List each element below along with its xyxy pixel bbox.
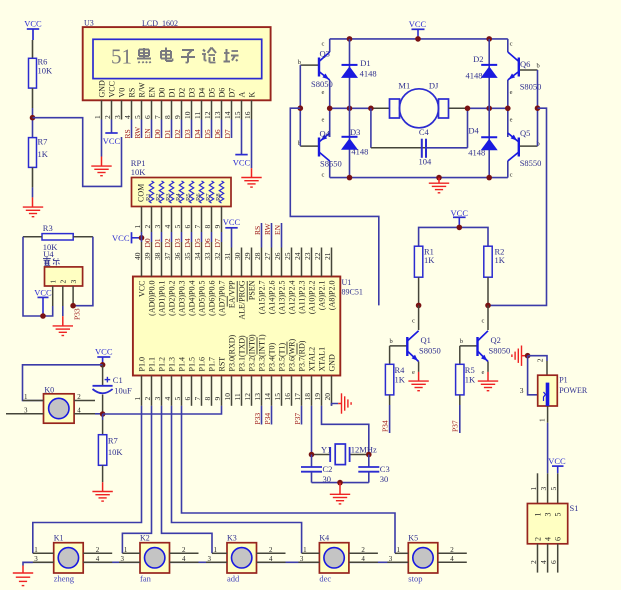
- svg-text:3: 3: [389, 555, 393, 563]
- svg-text:15: 15: [233, 111, 242, 119]
- power VCC (U4 pin1): [34, 287, 52, 316]
- node motor rail Q3/Q4 emitters: [327, 106, 333, 112]
- svg-text:7: 7: [193, 397, 202, 401]
- wire RST net: [103, 406, 222, 414]
- node U4 pin1 VCC junction: [40, 313, 46, 319]
- svg-text:(A15)P2.7: (A15)P2.7: [258, 281, 267, 315]
- svg-text:1: 1: [538, 418, 547, 422]
- svg-text:34: 34: [193, 252, 202, 260]
- svg-text:(AD1)P0.1: (AD1)P0.1: [158, 281, 167, 316]
- wire driver VCC rail: [419, 227, 488, 246]
- svg-text:1: 1: [24, 393, 28, 401]
- node top rail D2: [486, 36, 492, 42]
- svg-text:D7: D7: [228, 88, 237, 98]
- svg-text:D0: D0: [158, 88, 167, 98]
- svg-text:36: 36: [173, 252, 182, 260]
- wire H-bridge motor rail left: [330, 39, 390, 137]
- wire XTAL2 to crystal left node: [311, 406, 313, 455]
- svg-text:c: c: [482, 318, 485, 325]
- svg-text:3: 3: [539, 487, 548, 491]
- svg-text:VCC: VCC: [108, 81, 117, 97]
- svg-text:R4: R4: [175, 193, 182, 201]
- svg-text:RS: RS: [123, 129, 132, 138]
- node motor rail D1/D3: [347, 106, 353, 112]
- svg-text:R/W: R/W: [138, 82, 147, 98]
- pushbutton K0: [6, 386, 95, 424]
- svg-text:13: 13: [213, 111, 222, 119]
- svg-text:4: 4: [269, 555, 273, 563]
- ground (U4 pin2): [53, 316, 73, 335]
- svg-text:EN: EN: [148, 87, 157, 98]
- svg-text:R5: R5: [465, 365, 475, 375]
- motor M1 DJ: [390, 81, 449, 128]
- capacitor C3 30pF: [358, 455, 389, 485]
- svg-text:1K: 1K: [424, 255, 435, 265]
- svg-text:c: c: [322, 41, 325, 48]
- svg-text:20: 20: [323, 393, 332, 401]
- svg-text:51: 51: [111, 45, 132, 69]
- svg-text:8: 8: [163, 115, 172, 119]
- wire left base drive to Q1 collector: [290, 108, 379, 305]
- svg-text:7: 7: [153, 115, 162, 119]
- svg-text:P1.6: P1.6: [198, 357, 207, 371]
- svg-text:D6: D6: [213, 129, 222, 138]
- svg-text:D3: D3: [183, 129, 192, 138]
- svg-text:R2: R2: [155, 193, 162, 201]
- svg-text:2: 2: [536, 358, 545, 362]
- node motor rail C4 left: [368, 106, 374, 112]
- svg-text:10uF: 10uF: [114, 386, 132, 396]
- svg-text:3: 3: [69, 280, 78, 284]
- svg-text:30: 30: [380, 474, 389, 484]
- svg-text:VCC: VCC: [223, 217, 241, 227]
- svg-text:D3: D3: [173, 238, 182, 247]
- transistor Q1 S8050: [390, 305, 441, 376]
- resistor R4 1K: [385, 346, 405, 405]
- svg-text:3: 3: [121, 555, 125, 563]
- svg-text:4: 4: [77, 406, 81, 414]
- svg-text:19: 19: [313, 393, 322, 401]
- svg-text:1: 1: [529, 487, 538, 491]
- svg-text:3: 3: [208, 555, 212, 563]
- svg-text:D4: D4: [198, 88, 207, 98]
- svg-text:(A10)P2.2: (A10)P2.2: [308, 281, 317, 315]
- svg-text:2: 2: [103, 115, 112, 119]
- pushbutton K1 (zheng): [33, 534, 113, 584]
- capacitor C1 10uF electrolytic: [93, 365, 132, 414]
- svg-text:4: 4: [450, 555, 454, 563]
- resistor R5 1K: [456, 346, 476, 405]
- svg-text:e: e: [322, 89, 325, 96]
- node top rail D1: [347, 36, 353, 42]
- svg-text:14: 14: [263, 393, 272, 401]
- ground (MCU pin20, sideways): [338, 393, 351, 413]
- svg-text:A: A: [238, 92, 247, 98]
- svg-text:21: 21: [323, 252, 332, 260]
- svg-text:40: 40: [133, 252, 142, 260]
- svg-text:LCD_1602: LCD_1602: [142, 19, 178, 28]
- svg-text:R3: R3: [165, 193, 172, 201]
- pushbutton K3 (add): [206, 534, 286, 584]
- svg-text:S8550: S8550: [320, 159, 342, 169]
- node Q1 collector: [416, 303, 422, 309]
- transistor Q4 S8550: [298, 117, 342, 179]
- MCU pin name overlines (INT0 INT1 WR RD): [247, 337, 297, 354]
- svg-text:5: 5: [173, 397, 182, 401]
- svg-text:R7: R7: [38, 137, 48, 147]
- node crystal left: [309, 452, 315, 458]
- ground (Q2 emitter): [478, 372, 498, 391]
- svg-text:2: 2: [182, 546, 186, 554]
- svg-text:3: 3: [153, 397, 162, 401]
- svg-text:VCC: VCC: [409, 19, 427, 29]
- svg-text:M1: M1: [398, 81, 410, 91]
- svg-text:P3.6(WR): P3.6(WR): [288, 339, 297, 372]
- svg-text:10K: 10K: [131, 167, 147, 177]
- svg-text:10: 10: [223, 393, 232, 401]
- transistor Q2 S8050: [460, 305, 510, 376]
- svg-text:D5: D5: [193, 238, 202, 247]
- svg-text:P1.0: P1.0: [138, 357, 147, 371]
- svg-text:c: c: [412, 318, 415, 325]
- svg-text:D5: D5: [203, 129, 212, 138]
- svg-text:K4: K4: [319, 534, 329, 543]
- svg-text:D0: D0: [143, 238, 152, 247]
- svg-text:1: 1: [133, 397, 142, 401]
- node C1/R7/RST junction: [100, 411, 106, 417]
- svg-text:1K: 1K: [495, 255, 506, 265]
- svg-text:2: 2: [77, 393, 81, 401]
- wire MCU GND pin20 to sideways ground: [332, 404, 339, 406]
- crystal Y1 12MHz: [312, 444, 377, 465]
- svg-text:Q2: Q2: [491, 335, 501, 345]
- svg-text:14: 14: [223, 111, 232, 119]
- svg-text:2: 2: [269, 546, 273, 554]
- svg-text:12: 12: [203, 111, 212, 119]
- svg-text:4: 4: [163, 397, 172, 401]
- LCD pin names: [98, 80, 257, 98]
- svg-text:1: 1: [397, 546, 401, 554]
- svg-text:RS: RS: [253, 226, 262, 235]
- svg-text:P3.2(INT0): P3.2(INT0): [248, 334, 257, 371]
- svg-text:P1.1: P1.1: [148, 357, 157, 371]
- svg-text:10: 10: [183, 111, 192, 119]
- svg-text:R6: R6: [195, 193, 202, 201]
- svg-text:b: b: [390, 338, 393, 345]
- svg-text:6: 6: [143, 115, 152, 119]
- svg-text:VCC: VCC: [95, 346, 113, 356]
- node driver VCC: [457, 225, 463, 231]
- wire right base drive to Q2 collector: [488, 108, 547, 305]
- svg-text:P3.3(INT1): P3.3(INT1): [258, 334, 267, 371]
- hall sensor U4: [43, 249, 83, 306]
- svg-text:D2: D2: [173, 129, 182, 138]
- wire LCD pin15 to VCC: [241, 120, 243, 155]
- node RP1 pin1 junction: [139, 235, 145, 241]
- svg-text:Q4: Q4: [320, 129, 331, 139]
- svg-text:XTAL1: XTAL1: [318, 347, 327, 372]
- svg-text:b: b: [537, 63, 540, 70]
- capacitor C2 30pF: [301, 455, 332, 485]
- node Q3/Q4 bases: [298, 105, 304, 111]
- svg-text:VCC: VCC: [451, 208, 469, 218]
- svg-text:RST: RST: [218, 357, 227, 372]
- svg-text:P37: P37: [451, 420, 460, 432]
- svg-text:1: 1: [303, 546, 307, 554]
- svg-text:(A14)P2.6: (A14)P2.6: [268, 281, 277, 315]
- svg-text:GND: GND: [328, 354, 337, 372]
- switch S1: [527, 473, 578, 572]
- MCU pin name overlines (EA PROG PSEN): [227, 281, 247, 307]
- node Q2 collector: [485, 303, 491, 309]
- RP1 internal resistors R1-R8: [145, 181, 224, 203]
- svg-text:P3.4(T0): P3.4(T0): [268, 343, 277, 372]
- svg-text:C4: C4: [419, 127, 430, 137]
- svg-text:30: 30: [233, 252, 242, 260]
- svg-text:POWER: POWER: [559, 386, 588, 395]
- svg-text:Y1: Y1: [321, 444, 331, 454]
- svg-text:VCC: VCC: [24, 18, 42, 28]
- svg-text:dec: dec: [319, 574, 331, 584]
- svg-text:2: 2: [450, 546, 454, 554]
- svg-text:EN: EN: [143, 128, 152, 139]
- svg-text:24: 24: [293, 252, 302, 260]
- svg-text:39: 39: [143, 252, 152, 260]
- RP1 pins 1-9: [133, 207, 222, 233]
- wire Q3/Q4 base link: [299, 65, 301, 146]
- power VCC (top-left): [24, 18, 42, 40]
- svg-text:D1: D1: [360, 58, 370, 68]
- resistor R3: [42, 223, 73, 252]
- power VCC (RP1 COM): [112, 232, 141, 243]
- wire P1 pin2 to ground: [528, 356, 547, 376]
- diode D2 4148: [466, 39, 498, 108]
- node motor rail right C4: [465, 106, 471, 112]
- svg-text:D3: D3: [188, 88, 197, 98]
- svg-text:28: 28: [253, 252, 262, 260]
- svg-text:D2: D2: [163, 238, 172, 247]
- svg-text:16: 16: [243, 111, 252, 119]
- wire crystal caps common rail: [312, 482, 369, 484]
- svg-text:1: 1: [534, 513, 543, 517]
- net stubs P33 P34 P37 (MCU): [253, 406, 302, 425]
- wire MCU to K4 pin1: [172, 406, 302, 554]
- svg-text:e: e: [510, 89, 513, 96]
- wire MCU to K1 pin1: [33, 406, 142, 554]
- svg-text:3: 3: [520, 386, 524, 395]
- svg-text:(AD6)P0.6: (AD6)P0.6: [208, 281, 217, 316]
- wire U4 pin2 to ground: [62, 306, 64, 316]
- ground (LCD pin16 K): [241, 168, 261, 187]
- svg-text:EN: EN: [273, 224, 282, 235]
- svg-text:Q6: Q6: [520, 59, 530, 69]
- wire K1 pin3 to ground: [23, 562, 33, 565]
- svg-text:4148: 4148: [466, 71, 483, 81]
- svg-text:VCC: VCC: [34, 287, 52, 297]
- svg-text:VCC: VCC: [112, 233, 130, 243]
- svg-text:R7: R7: [108, 436, 118, 446]
- svg-text:C2: C2: [323, 464, 333, 474]
- svg-text:R4: R4: [395, 365, 406, 375]
- svg-text:1: 1: [124, 546, 128, 554]
- wire XTAL1 to crystal right node: [322, 406, 369, 455]
- svg-text:D2: D2: [473, 54, 483, 64]
- ground (buttons): [13, 566, 33, 586]
- svg-text:(AD5)P0.5: (AD5)P0.5: [198, 281, 207, 316]
- svg-text:c: c: [510, 41, 513, 48]
- svg-text:U1: U1: [342, 278, 352, 287]
- resistor R2 1K: [484, 246, 506, 305]
- svg-text:33: 33: [203, 252, 212, 260]
- transistor Q5 S8550: [508, 117, 542, 179]
- wire R3 right loop to U4 pin3: [73, 237, 93, 306]
- svg-text:(A8)P2.0: (A8)P2.0: [328, 281, 337, 311]
- pushbutton K5 (stop): [387, 534, 467, 584]
- svg-text:P3.5(T1): P3.5(T1): [278, 343, 287, 372]
- svg-text:S8550: S8550: [520, 158, 542, 168]
- svg-text:(A12)P2.4: (A12)P2.4: [288, 281, 297, 315]
- node Q6/Q5 bases: [535, 105, 541, 111]
- svg-text:R1: R1: [145, 193, 152, 201]
- svg-text:c: c: [322, 172, 325, 179]
- net labels D0-D7 (RP1 to P0): [143, 238, 222, 247]
- svg-text:S8050: S8050: [419, 346, 441, 356]
- svg-text:5: 5: [173, 225, 182, 229]
- svg-text:(AD4)P0.4: (AD4)P0.4: [188, 281, 197, 316]
- svg-text:P1.4: P1.4: [178, 357, 187, 371]
- svg-text:RW: RW: [133, 126, 142, 139]
- svg-text:2: 2: [361, 546, 365, 554]
- MCU bottom pin names: [138, 334, 337, 371]
- svg-text:6: 6: [554, 537, 563, 541]
- svg-text:11: 11: [193, 112, 202, 119]
- svg-text:3: 3: [34, 555, 38, 563]
- svg-text:7: 7: [193, 225, 202, 229]
- svg-text:4: 4: [96, 555, 100, 563]
- svg-text:P34: P34: [381, 420, 390, 432]
- svg-text:(A13)P2.5: (A13)P2.5: [278, 281, 287, 315]
- resistor R7 10K (reset): [98, 414, 123, 482]
- svg-text:P33: P33: [73, 308, 82, 320]
- svg-text:2: 2: [143, 397, 152, 401]
- svg-text:D6: D6: [218, 88, 227, 98]
- svg-text:D4: D4: [193, 129, 202, 138]
- svg-text:DJ: DJ: [429, 81, 439, 91]
- node VCC K0/C1: [100, 362, 106, 368]
- capacitor C4 104 snubber: [371, 108, 468, 166]
- svg-text:32: 32: [213, 252, 222, 260]
- svg-text:4: 4: [361, 555, 365, 563]
- svg-text:P3.7(RD): P3.7(RD): [298, 340, 307, 371]
- svg-text:11: 11: [233, 393, 242, 400]
- svg-text:5: 5: [549, 487, 558, 491]
- svg-text:e: e: [510, 117, 513, 124]
- svg-text:12MHz: 12MHz: [351, 444, 377, 454]
- svg-text:4148: 4148: [351, 146, 368, 156]
- svg-text:D4: D4: [183, 238, 192, 247]
- svg-text:P37: P37: [293, 413, 302, 425]
- svg-text:VCC: VCC: [233, 158, 251, 168]
- power VCC (S1 pin5): [548, 456, 566, 473]
- svg-text:add: add: [227, 574, 240, 584]
- svg-text:P34: P34: [263, 413, 272, 425]
- wire buttons common row (pins 3-4): [23, 561, 438, 563]
- svg-text:R5: R5: [185, 193, 192, 201]
- power VCC (driver stage): [451, 208, 469, 228]
- svg-text:1: 1: [93, 115, 102, 119]
- svg-text:6: 6: [183, 397, 192, 401]
- power VCC (K0/C1 node): [95, 346, 113, 365]
- svg-text:1K: 1K: [465, 375, 476, 385]
- MCU top pins 40-21: [133, 248, 332, 277]
- node U4 pin3 junction: [70, 303, 76, 309]
- svg-text:4148: 4148: [468, 147, 485, 157]
- svg-text:(AD2)P0.2: (AD2)P0.2: [168, 281, 177, 316]
- svg-text:8: 8: [203, 225, 212, 229]
- LCD text CJK chars: [137, 48, 239, 64]
- svg-text:D1: D1: [153, 238, 162, 247]
- svg-text:35: 35: [183, 252, 192, 260]
- svg-text:R7: R7: [205, 193, 212, 201]
- svg-text:15: 15: [273, 393, 282, 401]
- svg-text:5: 5: [554, 513, 563, 517]
- LCD module U3 LCD_1602: [83, 19, 271, 101]
- power VCC (LCD pin15 backlight A): [233, 155, 251, 168]
- svg-text:9: 9: [213, 397, 222, 401]
- wire V0 net to LCD pin3: [33, 118, 122, 187]
- svg-text:10K: 10K: [38, 66, 54, 76]
- svg-text:9: 9: [173, 115, 182, 119]
- svg-text:c: c: [510, 172, 513, 179]
- svg-text:D2: D2: [178, 88, 187, 98]
- wire MCU to K3 pin1: [162, 406, 213, 554]
- svg-text:1: 1: [34, 546, 38, 554]
- svg-text:6: 6: [549, 560, 558, 564]
- svg-text:2: 2: [534, 537, 543, 541]
- svg-text:K3: K3: [227, 534, 237, 543]
- svg-text:D7: D7: [213, 238, 222, 247]
- svg-text:P33: P33: [253, 413, 262, 425]
- node crystal ground junction: [337, 480, 343, 486]
- node V0 junction: [30, 115, 36, 121]
- svg-text:2: 2: [143, 225, 152, 229]
- wire P1 pin1 to S1 pin3: [547, 423, 549, 474]
- resistor R1 1K: [414, 246, 435, 305]
- svg-text:R3: R3: [43, 223, 53, 233]
- wire H-bridge top rail: [330, 38, 508, 40]
- svg-text:5: 5: [133, 115, 142, 119]
- svg-text:37: 37: [163, 252, 172, 260]
- node motor rail Q6/Q5 emitters: [505, 106, 511, 112]
- wires RP1 pins to 89C51 P0 port: [142, 232, 222, 248]
- svg-text:1K: 1K: [38, 149, 49, 159]
- wire MCU to K2 pin1: [122, 406, 151, 554]
- pushbutton K2 (fan): [119, 534, 199, 584]
- svg-text:8: 8: [203, 397, 212, 401]
- svg-text:D7: D7: [223, 129, 232, 138]
- svg-text:27: 27: [263, 252, 272, 260]
- svg-text:3: 3: [300, 555, 304, 563]
- wire LCD pin1 to ground: [101, 120, 103, 157]
- wire R6-R7 junction: [32, 108, 34, 138]
- node bottom rail ground: [436, 175, 442, 181]
- wire H-bridge bottom rail: [330, 161, 508, 178]
- svg-text:Q3: Q3: [320, 49, 330, 59]
- svg-text:26: 26: [273, 252, 282, 260]
- node bottom rail D3: [347, 175, 353, 181]
- wire P1 pin3 to ground: [528, 356, 538, 395]
- svg-text:4: 4: [163, 225, 172, 229]
